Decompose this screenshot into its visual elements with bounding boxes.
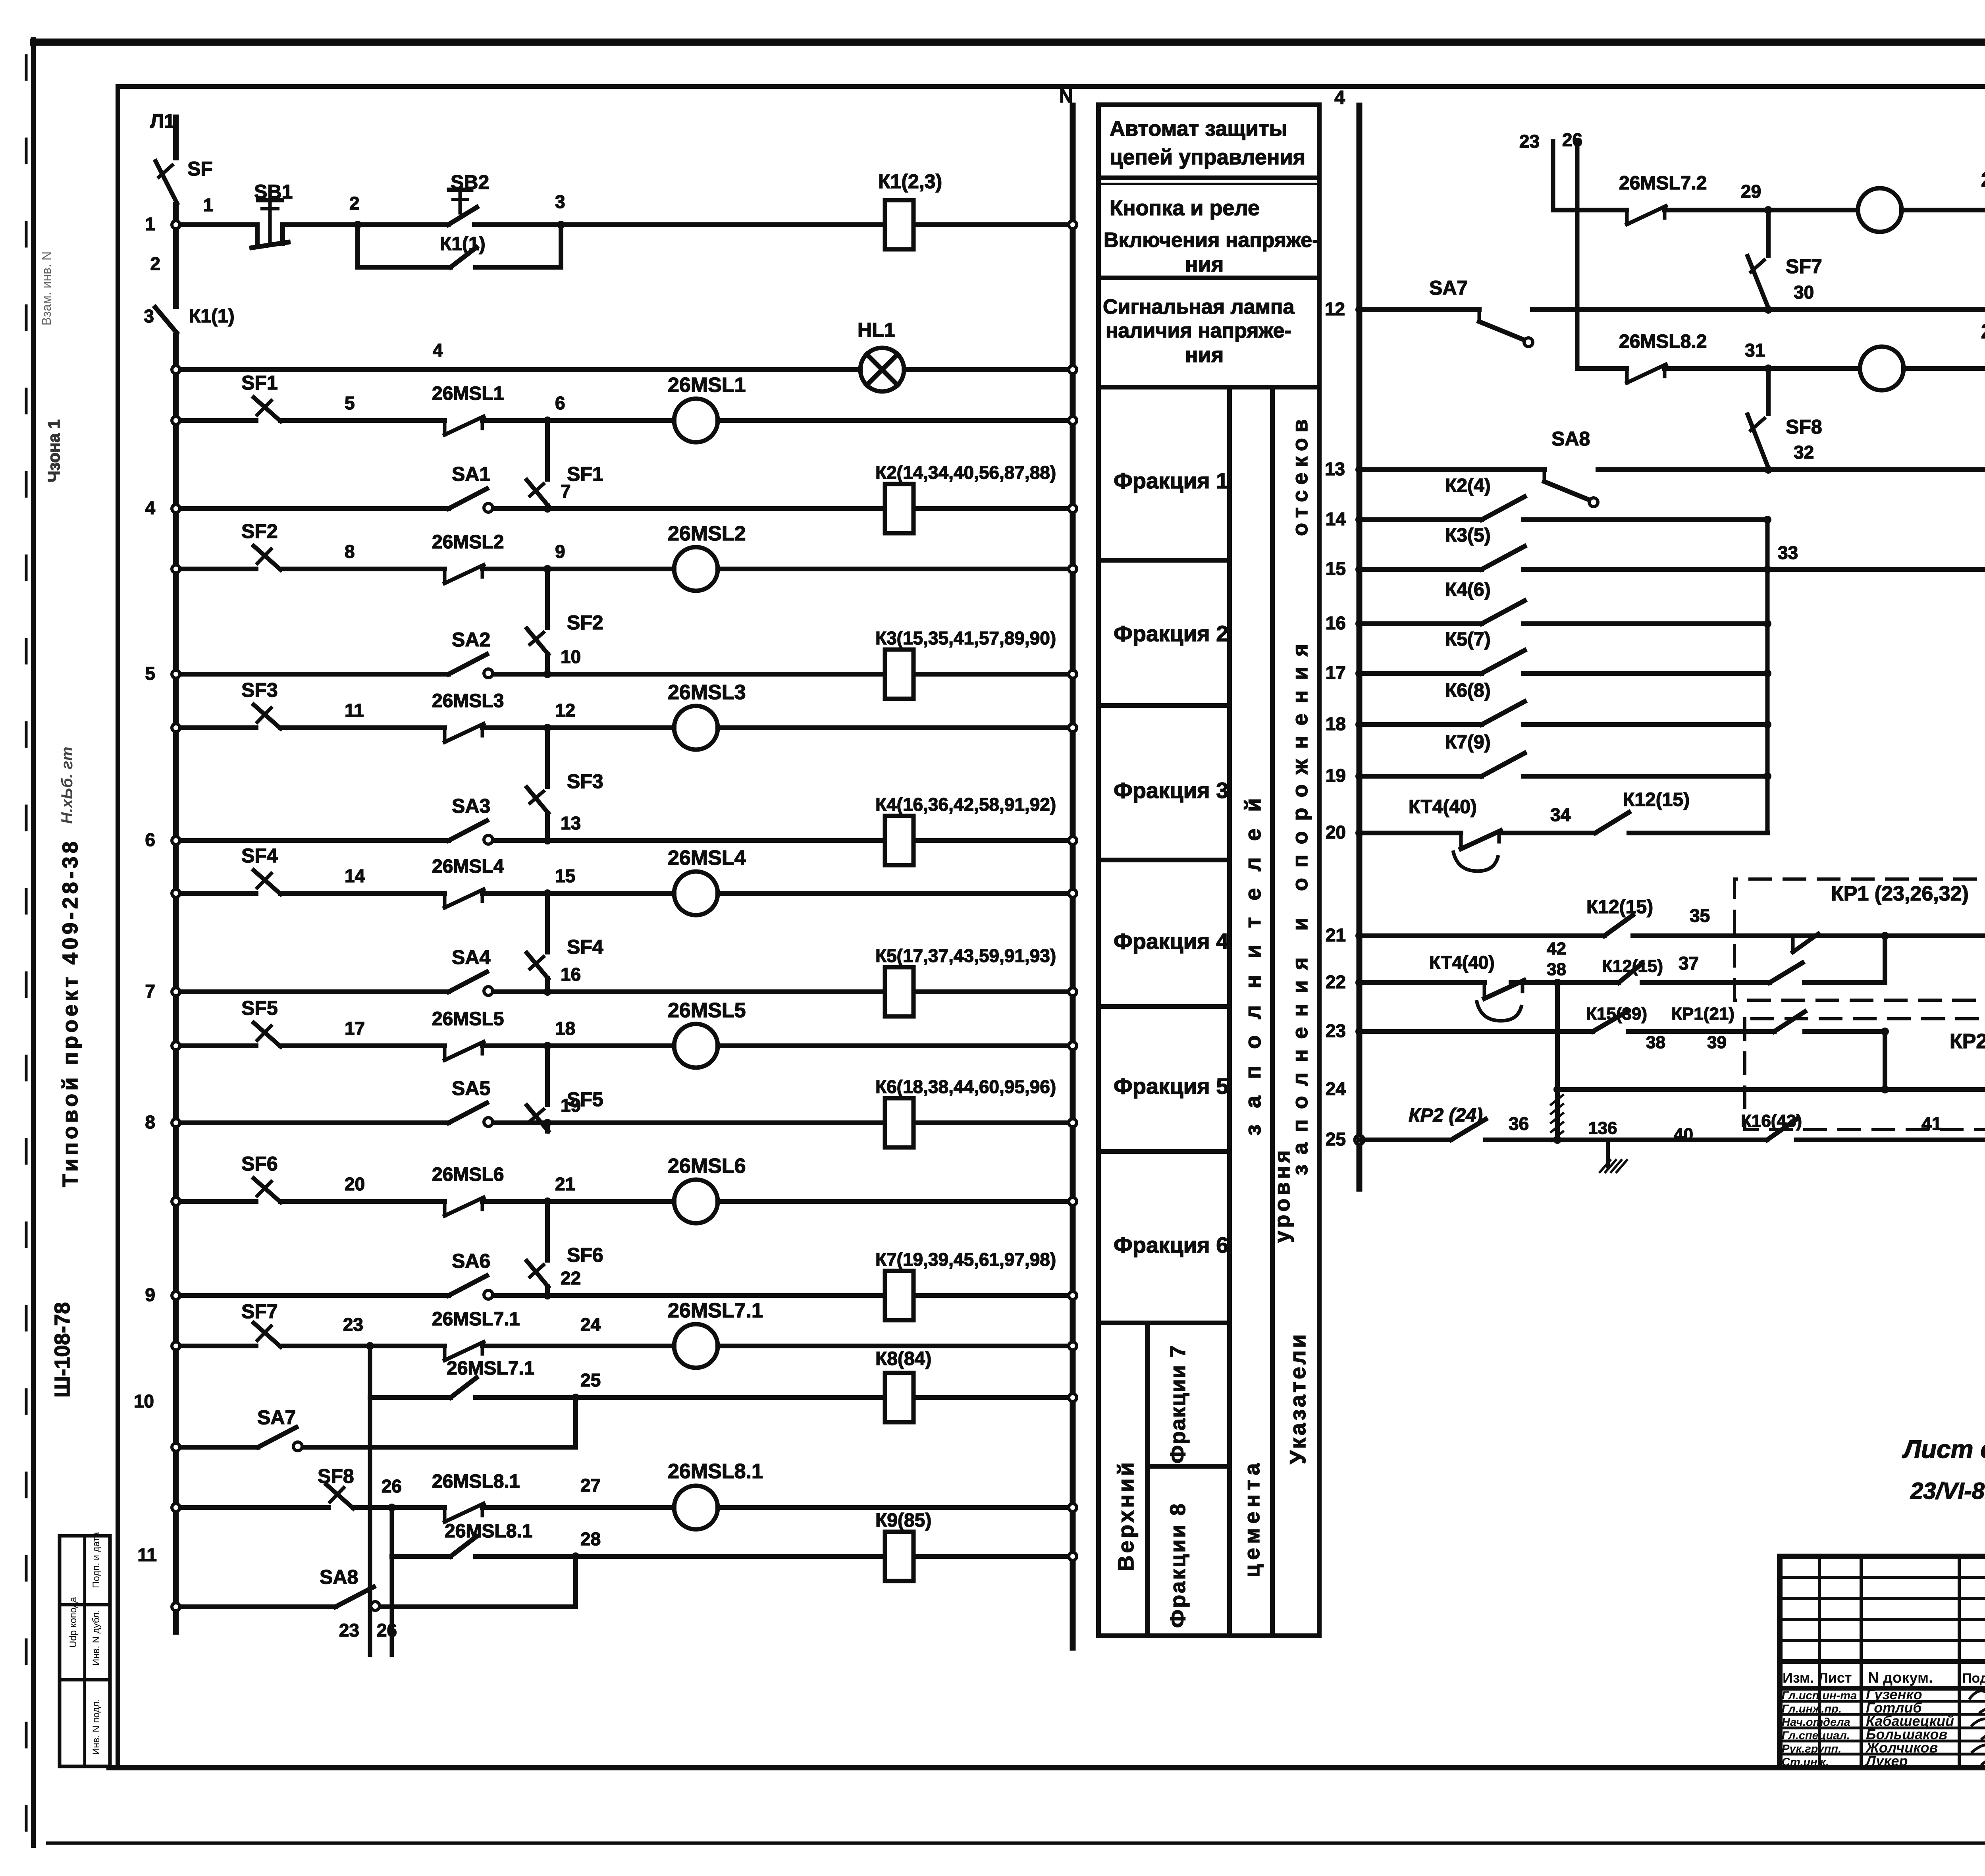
svg-text:26MSL7.2: 26MSL7.2 [1981, 168, 1985, 191]
wire rung 8 (lamp circuit 26MSL2) [176, 567, 256, 571]
wire rung 14 [1359, 517, 1482, 522]
svg-text:4: 4 [433, 340, 443, 361]
wire rung 20 [1359, 831, 1461, 835]
dashed enclosure KP2 [1745, 1019, 1985, 1130]
pushbutton SB1 (NC) [255, 225, 260, 244]
svg-text:17: 17 [345, 1018, 365, 1039]
svg-text:30: 30 [1794, 282, 1814, 303]
wire: vertical link to SA rung [545, 420, 550, 479]
svg-text:21: 21 [555, 1174, 575, 1194]
svg-text:25: 25 [580, 1370, 601, 1390]
contact KP2(24) on rung 25 [1451, 1119, 1486, 1140]
svg-text:Кнопка и реле: Кнопка и реле [1110, 196, 1260, 220]
node 21 [543, 1197, 551, 1205]
node branch-28 junction [572, 1552, 580, 1560]
NC contact 26MSL3 [443, 728, 447, 742]
svg-text:К6(18,38,44,60,95,96): К6(18,38,44,60,95,96) [875, 1076, 1056, 1097]
node 12-13 junction [543, 837, 551, 844]
svg-text:Подп. и дата: Подп. и дата [91, 1532, 102, 1588]
contact K16(43) on rung 25 [1767, 1119, 1796, 1140]
svg-text:26MSL3: 26MSL3 [432, 690, 504, 711]
svg-text:заполнителей: заполнителей [1240, 781, 1265, 1136]
svg-text:Фракция 2: Фракция 2 [1114, 621, 1228, 646]
svg-text:35: 35 [1690, 905, 1710, 926]
svg-text:SF4: SF4 [567, 936, 603, 958]
svg-text:Чзона 1: Чзона 1 [44, 419, 63, 482]
contact K12(15) on rung 21 [1604, 915, 1633, 936]
svg-text:Типовой проект 409-28-38: Типовой проект 409-28-38 [58, 838, 82, 1187]
hatch marks on wire 38 [1551, 1095, 1563, 1105]
svg-text:15: 15 [555, 866, 575, 886]
svg-text:К12(15): К12(15) [1602, 956, 1663, 976]
svg-text:SF2: SF2 [241, 520, 278, 542]
svg-text:5: 5 [145, 663, 155, 684]
node 30 [1764, 306, 1772, 314]
wire rung 18 [1359, 722, 1482, 727]
svg-text:SF6: SF6 [567, 1244, 603, 1266]
svg-text:Сигнальная лампа: Сигнальная лампа [1103, 295, 1295, 318]
svg-text:1: 1 [145, 214, 155, 234]
svg-text:N докум.: N докум. [1868, 1670, 1933, 1686]
svg-text:9: 9 [555, 541, 565, 562]
wire rung 26 (lamp 26MSL8.1) [176, 1505, 329, 1510]
svg-text:К6(8): К6(8) [1445, 680, 1491, 701]
svg-text:36: 36 [1509, 1113, 1529, 1134]
svg-text:26MSL4: 26MSL4 [432, 856, 504, 877]
svg-text:26MSL2: 26MSL2 [432, 532, 504, 553]
lamp 26MSL6 [674, 1180, 718, 1223]
svg-text:Изм. Лист: Изм. Лист [1783, 1670, 1852, 1686]
svg-text:17: 17 [1326, 662, 1346, 683]
selector switch SA5 [449, 1103, 487, 1123]
svg-text:Л1: Л1 [150, 110, 175, 132]
wire rung 23 [1359, 1029, 1593, 1034]
svg-text:Инв. N дубл.: Инв. N дубл. [91, 1610, 102, 1666]
contact K12(15) on rung 20 [1595, 812, 1629, 833]
svg-text:Н.хЬб. гт: Н.хЬб. гт [58, 747, 76, 824]
svg-text:22: 22 [1326, 972, 1346, 992]
svg-text:SF1: SF1 [567, 463, 603, 485]
svg-text:Взам. инв. N: Взам. инв. N [39, 251, 54, 326]
NC contact 26MSL8.2 [1625, 368, 1629, 383]
svg-text:N: N [1059, 86, 1073, 107]
svg-text:НL1: НL1 [858, 319, 895, 341]
svg-text:21: 21 [1326, 925, 1346, 945]
svg-text:1: 1 [203, 195, 214, 215]
svg-text:3: 3 [555, 191, 565, 212]
svg-text:цепей управления: цепей управления [1110, 145, 1305, 169]
svg-text:9: 9 [145, 1284, 155, 1305]
svg-text:12: 12 [1325, 299, 1345, 319]
svg-text:К7(9): К7(9) [1445, 732, 1491, 753]
svg-text:20: 20 [345, 1174, 365, 1194]
svg-text:19: 19 [561, 1095, 581, 1116]
svg-text:11: 11 [345, 700, 364, 721]
svg-text:8: 8 [145, 1112, 155, 1132]
svg-text:КТ4(40): КТ4(40) [1409, 796, 1477, 817]
selector switch SA8 [335, 1587, 374, 1607]
svg-text:19: 19 [1326, 765, 1346, 786]
contact К4(6) [1482, 601, 1524, 624]
wire rung 14 (lamp circuit 26MSL4) [176, 891, 256, 896]
svg-text:26MSL5: 26MSL5 [432, 1008, 504, 1030]
lamp 26MSL7.2 [1858, 188, 1902, 232]
svg-text:3: 3 [144, 306, 154, 326]
svg-text:SA2: SA2 [452, 629, 490, 651]
svg-text:SA7: SA7 [257, 1406, 296, 1429]
left ladder: neutral bus N (vertical) [1070, 106, 1076, 1648]
svg-text:5: 5 [345, 393, 355, 413]
svg-text:26: 26 [377, 1620, 397, 1641]
svg-text:К9(85): К9(85) [875, 1510, 931, 1531]
relay coil К6 [885, 1098, 913, 1147]
breaker contact SF6 (vertical) [527, 1261, 548, 1287]
NC contact 26MSL7.1 [443, 1346, 447, 1360]
svg-text:SB1: SB1 [254, 181, 293, 203]
svg-text:2: 2 [349, 193, 360, 214]
svg-text:Рук.групп.: Рук.групп. [1782, 1743, 1841, 1755]
NC contact 26MSL2 [443, 569, 447, 583]
svg-text:Включения напряже-: Включения напряже- [1104, 229, 1319, 252]
node branch-25 junction [572, 1394, 580, 1402]
wire branch 25 (hold-in of 26MSL7.1) [370, 1395, 451, 1400]
selector switch SA4 [449, 972, 487, 992]
wire rung 19 [1359, 774, 1482, 779]
svg-text:Гл.исп.ин-та: Гл.исп.ин-та [1782, 1689, 1857, 1702]
wire 23 (vertical, from sheet bottom-left) [1551, 141, 1555, 210]
node 6-7 junction [543, 505, 551, 513]
wire: vertical link to SA rung [545, 569, 550, 628]
svg-text:2: 2 [150, 253, 160, 274]
svg-text:К8(84): К8(84) [875, 1348, 931, 1369]
breaker contact SF1 (vertical) [527, 480, 548, 506]
svg-text:16: 16 [1326, 613, 1346, 633]
node 21-22 junction [543, 1292, 551, 1300]
wire row 29 (lamp 26MSL7.2) [1553, 208, 1627, 212]
selector switch SA1 [449, 489, 487, 509]
relay coil K1 [885, 200, 913, 249]
wire rung 16 [1359, 621, 1482, 626]
svg-text:38: 38 [1547, 960, 1566, 979]
breaker contact SF8 (vertical link 31-32) [1766, 368, 1771, 414]
wire link 38 (vertical rung22-rung25) [1555, 983, 1560, 1140]
svg-text:К2(4): К2(4) [1445, 475, 1491, 496]
svg-text:7: 7 [145, 981, 155, 1001]
svg-text:26MSL2: 26MSL2 [668, 522, 746, 545]
svg-text:цемента: цемента [1240, 1459, 1264, 1577]
lamp 26MSL4 [674, 871, 718, 915]
svg-text:SF7: SF7 [1786, 255, 1822, 278]
selector switch SA3 [449, 821, 487, 841]
svg-text:ния: ния [1185, 253, 1224, 276]
svg-text:10: 10 [561, 646, 581, 667]
node 3 [557, 221, 565, 229]
svg-text:23: 23 [1519, 131, 1540, 152]
svg-text:42: 42 [1547, 939, 1566, 958]
NC contact 26MSL8.1 [443, 1508, 447, 1522]
wire row 31 (lamp 26MSL8.2) [1577, 366, 1627, 371]
svg-text:10: 10 [134, 1391, 154, 1411]
node 18 [543, 1042, 551, 1050]
breaker contact SF2 (horizontal) [254, 546, 281, 570]
node 31 [1764, 364, 1772, 372]
svg-text:К4(6): К4(6) [1445, 579, 1491, 600]
relay coil К4 [885, 816, 913, 865]
wire 26 (vertical) [1575, 141, 1580, 368]
svg-text:26MSL8.2: 26MSL8.2 [1619, 331, 1707, 352]
breaker contact SF4 (vertical) [527, 953, 548, 979]
svg-text:Udp копода: Udp копода [68, 1596, 79, 1648]
svg-text:40: 40 [1674, 1125, 1693, 1144]
svg-text:Нач.отдела: Нач.отдела [1782, 1716, 1850, 1729]
wire rung 13 (SA / relay coil) [176, 838, 449, 843]
svg-text:37: 37 [1679, 953, 1699, 974]
svg-text:КТ4(40): КТ4(40) [1429, 952, 1495, 973]
svg-text:25: 25 [1326, 1129, 1346, 1149]
svg-text:К3(15,35,41,57,89,90): К3(15,35,41,57,89,90) [875, 628, 1056, 648]
svg-text:23: 23 [339, 1620, 359, 1641]
wire rung 23 (lamp 26MSL7.1) [176, 1344, 256, 1348]
NC contact 26MSL4 [443, 893, 447, 908]
svg-text:SF1: SF1 [241, 372, 278, 394]
svg-text:SA4: SA4 [452, 946, 490, 968]
node 6 [543, 416, 551, 424]
svg-text:К15(39): К15(39) [1586, 1004, 1647, 1024]
svg-text:К2(14,34,40,56,87,88): К2(14,34,40,56,87,88) [875, 462, 1056, 483]
svg-text:Лукер: Лукер [1865, 1753, 1908, 1769]
svg-text:К1(1): К1(1) [189, 306, 235, 327]
svg-text:SF6: SF6 [241, 1153, 278, 1175]
svg-text:заполнения и опорожнения: заполнения и опорожнения [1288, 634, 1312, 1175]
svg-text:SF2: SF2 [567, 611, 603, 634]
lamp HL1 [860, 348, 904, 391]
breaker contact SF6 (horizontal) [254, 1178, 281, 1202]
svg-text:23/VI-81г ст.инж. Лев Пев: 23/VI-81г ст.инж. Лев Певень [1910, 1478, 1985, 1504]
svg-text:24: 24 [580, 1314, 601, 1335]
contact К2(4) [1482, 497, 1524, 520]
contact К5(7) [1482, 650, 1524, 673]
wire rung 13/32 (relay K11) [1359, 467, 1544, 472]
svg-text:К1(1): К1(1) [440, 233, 486, 255]
node 29 [1764, 206, 1772, 214]
lamp 26MSL7.1 [674, 1324, 718, 1368]
contact K12(15) on rung 22 [1619, 964, 1642, 983]
svg-text:SА7: SА7 [1429, 277, 1468, 299]
lamp 26MSL1 [674, 399, 718, 442]
svg-text:26MSL7.1: 26MSL7.1 [447, 1358, 534, 1379]
contact К7(9) [1482, 753, 1524, 776]
contact 26MSL8.1 (NO) [451, 1537, 476, 1556]
svg-text:SF3: SF3 [241, 679, 278, 701]
wire rung SA7 (row 10) [176, 1445, 258, 1450]
contact K1(1) on bus [173, 309, 179, 333]
node wire38-rung25 [1553, 1136, 1561, 1144]
node 15 [543, 889, 551, 897]
svg-text:SA1: SA1 [452, 463, 490, 485]
svg-text:К5(17,37,43,59,91,93): К5(17,37,43,59,91,93) [875, 945, 1056, 966]
left ladder: supply bus L1 (vertical) [173, 118, 179, 1632]
svg-text:Фракция 6: Фракция 6 [1114, 1232, 1228, 1257]
svg-text:4: 4 [145, 497, 155, 518]
wire rung 20 (lamp circuit 26MSL6) [176, 1199, 256, 1204]
svg-text:26MSL1: 26MSL1 [432, 383, 504, 404]
selector switch SA6 [449, 1276, 487, 1296]
lamp 26MSL5 [674, 1024, 718, 1068]
svg-text:15: 15 [1326, 558, 1346, 579]
svg-text:К5(7): К5(7) [1445, 629, 1491, 650]
contact K1(1) [451, 247, 476, 267]
svg-text:наличия напряже-: наличия напряже- [1106, 319, 1291, 342]
svg-text:Указатели: Указатели [1285, 1332, 1310, 1464]
svg-text:4: 4 [1334, 87, 1345, 108]
contact KP1 (second, rung 22) [1769, 963, 1802, 983]
svg-text:К12(15): К12(15) [1623, 789, 1690, 810]
svg-text:26MSL8.2: 26MSL8.2 [1981, 320, 1985, 343]
node 9 [543, 565, 551, 573]
svg-text:Фракция 5: Фракция 5 [1114, 1074, 1228, 1099]
svg-text:16: 16 [561, 964, 581, 985]
svg-text:Инв. N подл.: Инв. N подл. [91, 1699, 102, 1755]
breaker contact SF5 (vertical) [527, 1105, 548, 1131]
svg-text:31: 31 [1745, 340, 1765, 361]
node 9-10 junction [543, 670, 551, 678]
breaker contact SF4 (horizontal) [254, 870, 281, 894]
svg-text:SF: SF [187, 158, 213, 180]
wire: vertical link to SA rung [545, 728, 550, 787]
svg-text:26: 26 [382, 1476, 402, 1496]
svg-text:SB2: SB2 [451, 171, 489, 193]
node 23 / wire 23 drop [366, 1342, 374, 1350]
wire rung 19 (SA / relay coil) [176, 1120, 449, 1125]
breaker SF on bus [173, 160, 179, 202]
svg-text:28: 28 [580, 1529, 601, 1549]
wire: vertical link to SA rung [545, 893, 550, 952]
wire rung 21 [1359, 933, 1604, 938]
svg-text:К12(15): К12(15) [1586, 897, 1653, 918]
node rung21-22 link [1881, 932, 1889, 940]
svg-text:27: 27 [580, 1475, 601, 1496]
contact K1(1) hold-in branch wire [358, 225, 451, 267]
contact K15(39) on rung 23 [1593, 1011, 1628, 1032]
relay coil K9 [885, 1532, 913, 1581]
selector switch SA2 [449, 654, 487, 674]
contact К3(5) [1482, 546, 1524, 569]
selector switch SA8 (right) [1543, 470, 1546, 482]
svg-text:26: 26 [1562, 129, 1582, 150]
svg-text:К3(5): К3(5) [1445, 525, 1491, 546]
svg-text:26MSL8.1: 26MSL8.1 [668, 1460, 763, 1483]
svg-text:12: 12 [555, 700, 575, 721]
breaker contact SF7 (horizontal) [254, 1323, 281, 1347]
svg-text:32: 32 [1794, 442, 1814, 463]
signature squiggles [1969, 1690, 1985, 1701]
wire: vertical link to SA rung [545, 1046, 550, 1105]
svg-text:18: 18 [1326, 713, 1346, 734]
right ladder: bus wire 4 (vertical) [1357, 106, 1363, 1189]
dashed enclosure KP1 [1734, 879, 1985, 1000]
svg-text:26MSL8.1: 26MSL8.1 [445, 1521, 532, 1542]
svg-text:34: 34 [1550, 804, 1571, 825]
svg-text:Верхний: Верхний [1113, 1460, 1138, 1571]
NC contact 26MSL6 [443, 1201, 447, 1216]
node 12 [543, 724, 551, 732]
wire rung 16 (SA / relay coil) [176, 989, 449, 994]
svg-text:отсеков: отсеков [1288, 414, 1312, 536]
bottom-left margin stamp table [60, 1536, 110, 1766]
node 2 [354, 221, 362, 229]
rail symbol below rung 25 [1606, 1140, 1610, 1166]
svg-text:SF8: SF8 [1786, 416, 1822, 438]
wire rung 4 (signal lamp HL1) [176, 367, 860, 372]
svg-text:SF5: SF5 [241, 997, 278, 1019]
node 26 / wire 26 drop [388, 1504, 396, 1512]
svg-text:33: 33 [1778, 542, 1798, 563]
svg-text:Фракции 8: Фракции 8 [1166, 1502, 1190, 1628]
svg-text:К16(43): К16(43) [1741, 1111, 1802, 1131]
breaker contact SF1 (horizontal) [254, 397, 281, 421]
relay coil К5 [885, 967, 913, 1016]
svg-text:23: 23 [1326, 1020, 1346, 1041]
svg-text:Ст.инж.: Ст.инж. [1782, 1756, 1829, 1769]
svg-text:SA8: SA8 [320, 1566, 358, 1588]
wire rung 11 (lamp circuit 26MSL3) [176, 725, 256, 730]
svg-text:26MSL1: 26MSL1 [668, 374, 746, 397]
contact KP1 (in box, rung 21) [1791, 936, 1795, 952]
svg-text:20: 20 [1326, 822, 1346, 843]
svg-text:26MSL6: 26MSL6 [432, 1164, 504, 1185]
svg-text:8: 8 [345, 541, 355, 562]
svg-text:23: 23 [343, 1314, 363, 1335]
svg-text:SА8: SА8 [1551, 428, 1590, 450]
wire rung 17 [1359, 671, 1482, 676]
wire rung 7 (SA / relay coil) [176, 506, 449, 511]
svg-text:6: 6 [145, 829, 155, 850]
svg-text:Ш-108-78: Ш-108-78 [50, 1302, 74, 1398]
svg-text:26MSL8.1: 26MSL8.1 [432, 1471, 520, 1492]
svg-text:Автомат защиты: Автомат защиты [1110, 117, 1287, 141]
svg-text:Гл.специал.: Гл.специал. [1782, 1729, 1850, 1742]
svg-text:SA5: SA5 [452, 1077, 490, 1099]
relay coil К3 [885, 650, 913, 699]
svg-text:Фракция 4: Фракция 4 [1114, 929, 1228, 954]
svg-text:Подпись: Подпись [1962, 1671, 1985, 1686]
wire link rung23-rung24 [1881, 1028, 1889, 1035]
svg-text:26MSL5: 26MSL5 [668, 999, 746, 1022]
lamp 26MSL8.1 [674, 1486, 718, 1529]
wire rung 17 (lamp circuit 26MSL5) [176, 1043, 256, 1048]
node 32 [1764, 466, 1772, 474]
pushbutton SB2 (NO) [448, 207, 477, 225]
selector switch SA7 (right) [1478, 310, 1481, 322]
svg-text:SF7: SF7 [241, 1300, 278, 1323]
breaker contact SF2 (vertical) [527, 629, 548, 654]
svg-text:11: 11 [137, 1544, 157, 1565]
wire rung 5 (lamp circuit 26MSL1) [176, 418, 256, 423]
wire branch 28 [392, 1554, 451, 1559]
wire rung 12/30 (relay K10) [1359, 307, 1479, 312]
NC contact 26MSL7.2 [1625, 210, 1629, 224]
svg-text:13: 13 [561, 813, 581, 833]
wire rung 22 (SA / relay coil) [176, 1293, 449, 1298]
node 42/38 (vertical top) [1553, 979, 1561, 987]
wire rung 1 [176, 222, 257, 227]
relay coil K8 [885, 1373, 913, 1422]
svg-text:29: 29 [1741, 181, 1761, 202]
node 15-16 junction [543, 988, 551, 996]
svg-text:К4(16,36,42,58,91,92): К4(16,36,42,58,91,92) [875, 794, 1056, 815]
wire rung 10 (SA / relay coil) [176, 672, 449, 677]
svg-text:41: 41 [1921, 1113, 1942, 1134]
